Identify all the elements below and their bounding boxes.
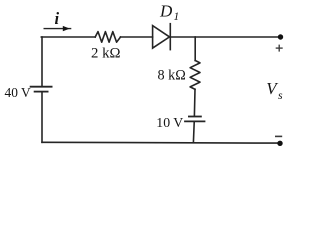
current arrow i (44, 26, 72, 31)
wire: middle branch below 10V battery to bottom wire (192, 122, 195, 142)
diode D1 cathode bar (169, 24, 171, 50)
battery V2 10V long plate (+) (185, 120, 205, 122)
svg-text:40 V: 40 V (5, 85, 31, 100)
wire: left vertical above 40V battery (41, 37, 43, 86)
wire: middle branch from top node down to 8k resistor (194, 37, 196, 61)
resistor R1 2 kOhm zigzag (95, 32, 120, 43)
battery V1 40V short plate (-) (35, 91, 48, 93)
svg-text:D: D (159, 1, 173, 20)
wire: middle branch between 8k resistor and 10V battery (193, 89, 196, 115)
label: minus sign at output (275, 135, 282, 137)
svg-text:1: 1 (174, 11, 180, 23)
battery V1 40V long plate (+) (31, 86, 52, 88)
svg-text:i: i (55, 9, 60, 28)
label: plus sign at output (276, 45, 283, 52)
wire: top-left horizontal segment (41, 36, 95, 38)
wire: left vertical below 40V battery (41, 93, 43, 143)
diode D1 triangle anode (153, 26, 170, 48)
node: + output terminal dot (278, 34, 283, 39)
battery V2 10V short plate (-) (189, 116, 201, 118)
svg-text:s: s (278, 88, 283, 102)
wire: top middle segment between resistor and diode (121, 36, 153, 38)
wire: top right segment from diode to + terminal (170, 36, 279, 38)
svg-text:10 V: 10 V (156, 115, 183, 130)
node: - output terminal dot (277, 141, 282, 146)
svg-text:2 kΩ: 2 kΩ (91, 45, 121, 61)
resistor R2 8 kOhm zigzag (190, 61, 200, 90)
wire: bottom horizontal segment (42, 141, 280, 144)
svg-text:8 kΩ: 8 kΩ (158, 68, 186, 84)
